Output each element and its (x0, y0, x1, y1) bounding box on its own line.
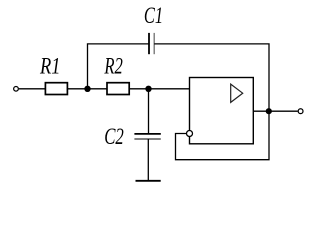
wire branch up from node A to C1 (88, 44, 150, 89)
wire input to R1 (19, 88, 46, 90)
svg-text:C1: C1 (144, 3, 163, 28)
wire op-amp output (253, 110, 297, 112)
svg-text:C2: C2 (104, 124, 124, 149)
node A (junction dot after R1) (84, 86, 90, 92)
output terminal (298, 109, 303, 114)
wire branch down from node B to C2 (148, 89, 150, 134)
capacitor C1 (149, 33, 154, 54)
capacitor C2 (134, 134, 160, 139)
node C (output junction dot) (266, 108, 272, 114)
ground (136, 180, 161, 182)
svg-text:R2: R2 (104, 53, 123, 78)
input terminal (14, 86, 19, 91)
feedback wire from bubble to output node (176, 111, 270, 160)
node B (junction dot after R2) (145, 86, 151, 92)
resistor R1 (45, 83, 67, 95)
op-amp U1 (box) (190, 78, 254, 144)
resistor R2 (107, 83, 129, 95)
svg-text:R1: R1 (39, 53, 60, 78)
wire C2 to ground (147, 139, 149, 181)
wire C1 to output node (154, 44, 269, 111)
inverting input bubble (187, 131, 193, 137)
wire R1 to R2 (67, 88, 107, 90)
op-amp U1 triangle symbol (231, 84, 243, 102)
wire R2 to op-amp (129, 88, 189, 90)
